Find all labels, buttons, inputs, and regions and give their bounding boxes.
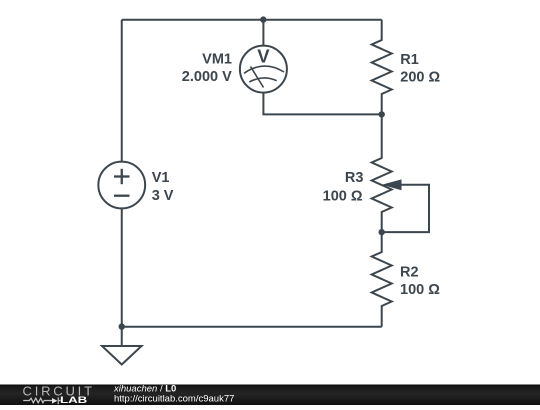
svg-text:R3: R3 (345, 170, 364, 186)
svg-text:R2: R2 (400, 264, 419, 280)
svg-text:LAB: LAB (60, 396, 87, 405)
svg-text:V: V (257, 46, 270, 67)
svg-text:R1: R1 (400, 52, 419, 68)
svg-text:VM1: VM1 (202, 51, 232, 67)
svg-text:2.000 V: 2.000 V (182, 69, 232, 85)
svg-text:100 Ω: 100 Ω (400, 282, 440, 298)
svg-text:V1: V1 (152, 170, 170, 186)
svg-text:3 V: 3 V (152, 188, 174, 204)
svg-text:200 Ω: 200 Ω (400, 69, 440, 85)
svg-text:100 Ω: 100 Ω (323, 188, 363, 204)
svg-text:http://circuitlab.com/c9auk77: http://circuitlab.com/c9auk77 (114, 393, 234, 404)
